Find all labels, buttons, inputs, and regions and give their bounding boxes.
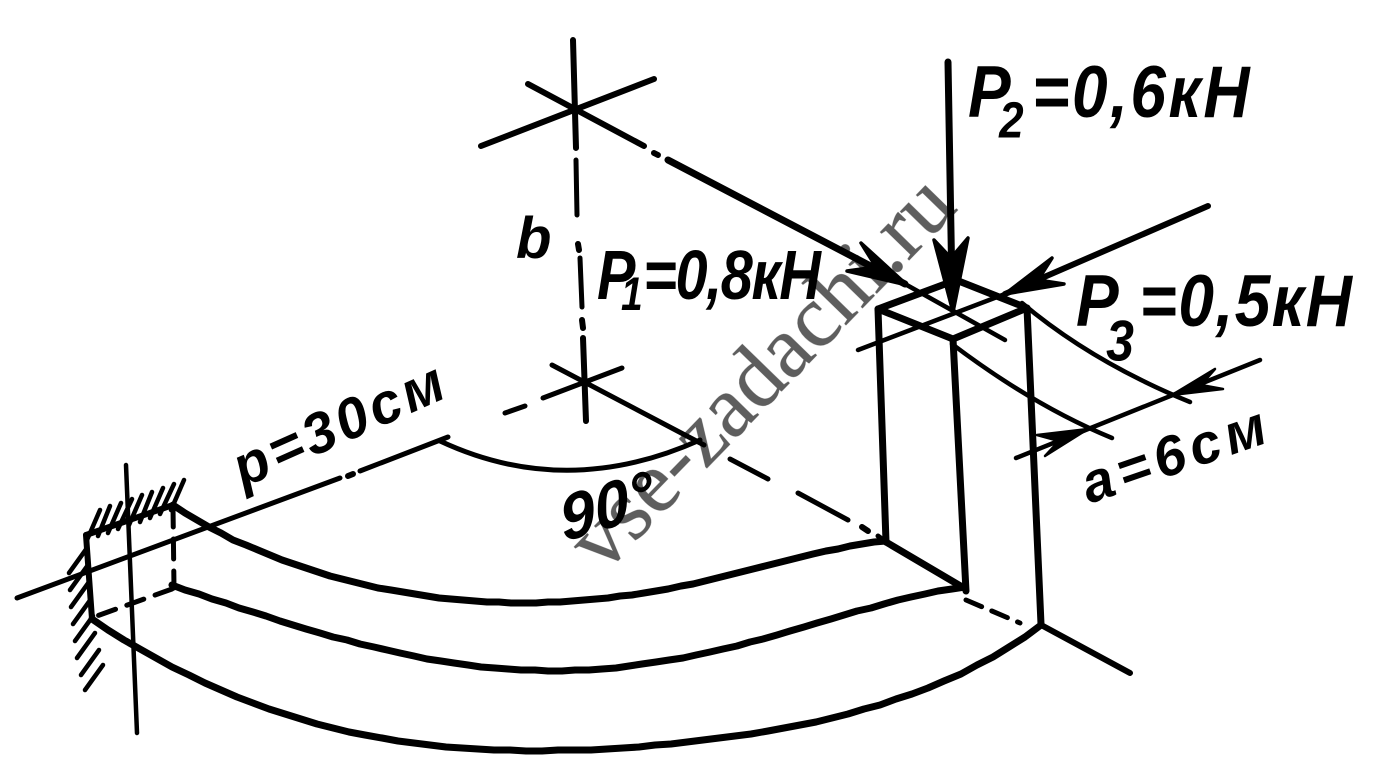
- column top face: [878, 280, 1027, 339]
- section hidden edge B-C (dashed): [173, 507, 174, 588]
- column base front-left edge: [886, 542, 964, 588]
- wall fixed support: section outline: [86, 505, 174, 619]
- force P2 arrowhead: [934, 238, 968, 312]
- dimension a extension line 2 (from column right corner): [1022, 303, 1190, 402]
- dimension a arrowhead right: [1172, 369, 1223, 395]
- force P1 line of action (from O1 to column top): [654, 153, 1005, 340]
- svg-text:P1=0,8кН: P1=0,8кН: [597, 236, 823, 321]
- section top edge A-B: [86, 505, 173, 535]
- watermark vse-zadachi.ru: [548, 155, 974, 589]
- force P2 arrow (vertical): [948, 62, 952, 290]
- label p=30 cm: [220, 348, 457, 501]
- label a=6cm: [1072, 391, 1279, 515]
- section hidden edge C-D (dashed): [94, 589, 172, 617]
- svg-text:P3=0,5кН: P3=0,5кН: [1076, 260, 1353, 373]
- center mark cross (top, arc center O1): [481, 40, 654, 148]
- radius line to column base (dash-dot from O2): [552, 365, 1130, 673]
- force P3 line of action: [858, 206, 1208, 350]
- dimension b center line (dash-dot vertical): [576, 160, 583, 328]
- beam outer bottom arc (from wall D to column right base): [92, 619, 1041, 751]
- column (vertical bar): [878, 280, 1041, 624]
- dimension a arrowhead left: [1037, 429, 1088, 456]
- dimension a extension line 1 (from column front corner): [952, 344, 1112, 438]
- section left edge A-D: [86, 535, 92, 619]
- beam outer top arc (from wall C to column front base): [172, 585, 965, 671]
- force P3 arrowhead: [1005, 258, 1064, 294]
- svg-text:b: b: [516, 206, 551, 271]
- svg-text:P2=0,6кН: P2=0,6кН: [968, 51, 1252, 150]
- radius line p (dash-dot from wall section to center O2): [17, 368, 622, 598]
- wall hatching: [69, 480, 184, 690]
- label P3=0,5kN: [1076, 260, 1353, 373]
- center mark cross (bottom, arc center O2): [583, 338, 586, 421]
- label P2=0,6kN: [968, 51, 1252, 150]
- column front edge: [953, 339, 966, 591]
- label 90deg: [555, 456, 660, 556]
- beam inner top arc (from wall B to column base): [173, 505, 886, 603]
- column back-left edge: [878, 309, 886, 542]
- dimension a line: [1016, 360, 1260, 458]
- force P1 arrowhead: [847, 243, 907, 285]
- label P1=0,8kN: [597, 236, 823, 321]
- column right edge: [1027, 308, 1041, 624]
- wall section vertical center line: [126, 465, 137, 733]
- 90 degree angle arc: [440, 440, 700, 470]
- svg-text:a=6см: a=6см: [1072, 391, 1279, 515]
